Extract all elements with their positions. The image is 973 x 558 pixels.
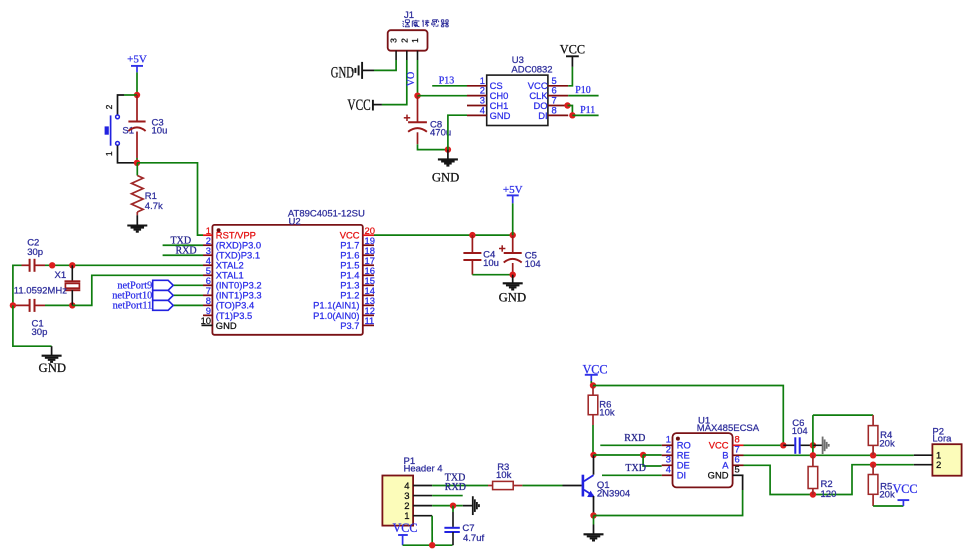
svg-text:VCC: VCC [347, 97, 370, 114]
svg-text:104: 104 [525, 259, 541, 270]
svg-text:5: 5 [735, 464, 740, 475]
svg-text:GND: GND [708, 470, 729, 481]
svg-text:10u: 10u [483, 258, 499, 269]
svg-text:2: 2 [399, 38, 409, 43]
svg-text:P11: P11 [580, 105, 595, 116]
svg-text:U2: U2 [289, 217, 301, 228]
svg-text:1: 1 [104, 151, 114, 156]
svg-text:10: 10 [201, 315, 211, 326]
svg-text:8: 8 [552, 104, 557, 115]
svg-text:GND: GND [432, 171, 460, 185]
svg-text:P13: P13 [439, 76, 455, 87]
svg-text:GND: GND [216, 320, 237, 331]
svg-text:VCC: VCC [893, 482, 918, 496]
svg-text:RXD: RXD [176, 246, 197, 257]
svg-text:10k: 10k [599, 408, 615, 419]
svg-text:DI: DI [538, 110, 547, 121]
svg-text:RXD: RXD [445, 482, 466, 493]
svg-text:GND: GND [331, 65, 354, 82]
svg-text:P3.7: P3.7 [340, 320, 359, 331]
svg-text:Header 4: Header 4 [404, 464, 443, 475]
svg-text:S1: S1 [122, 126, 134, 137]
svg-text:4.7uf: 4.7uf [463, 533, 484, 544]
svg-text:30p: 30p [27, 247, 43, 258]
svg-text:VCC: VCC [393, 521, 418, 535]
svg-text:RXD: RXD [624, 433, 645, 444]
svg-text:104: 104 [792, 426, 808, 437]
svg-text:netPort11: netPort11 [113, 301, 153, 312]
svg-text:10u: 10u [152, 126, 168, 137]
svg-text:MAX485ECSA: MAX485ECSA [697, 423, 760, 434]
svg-text:TXD: TXD [625, 463, 646, 474]
svg-text:GND: GND [39, 361, 67, 375]
svg-text:120: 120 [821, 489, 837, 500]
svg-text:VCC: VCC [560, 42, 585, 56]
svg-text:+5V: +5V [503, 184, 523, 196]
svg-text:11.0592MHz: 11.0592MHz [14, 286, 67, 297]
svg-text:DI: DI [677, 470, 686, 481]
svg-text:GND: GND [490, 110, 511, 121]
svg-text:4: 4 [480, 104, 485, 115]
svg-text:4.7k: 4.7k [145, 201, 163, 212]
svg-text:20k: 20k [879, 438, 895, 449]
svg-text:VO: VO [406, 72, 417, 86]
svg-text:10k: 10k [496, 470, 512, 481]
svg-text:2: 2 [936, 460, 941, 471]
svg-text:30p: 30p [32, 327, 48, 338]
svg-text:1: 1 [410, 38, 420, 43]
svg-text:P10: P10 [575, 85, 591, 96]
svg-text:2N3904: 2N3904 [597, 488, 630, 499]
svg-text:Lora: Lora [932, 434, 952, 445]
svg-text:3: 3 [389, 38, 399, 43]
svg-text:GND: GND [499, 290, 527, 304]
svg-text:X1: X1 [55, 270, 67, 281]
svg-text:+5V: +5V [127, 54, 147, 66]
svg-text:4: 4 [666, 464, 671, 475]
svg-text:2: 2 [104, 104, 114, 109]
svg-text:11: 11 [365, 315, 375, 326]
svg-text:ADC0832: ADC0832 [511, 64, 552, 75]
